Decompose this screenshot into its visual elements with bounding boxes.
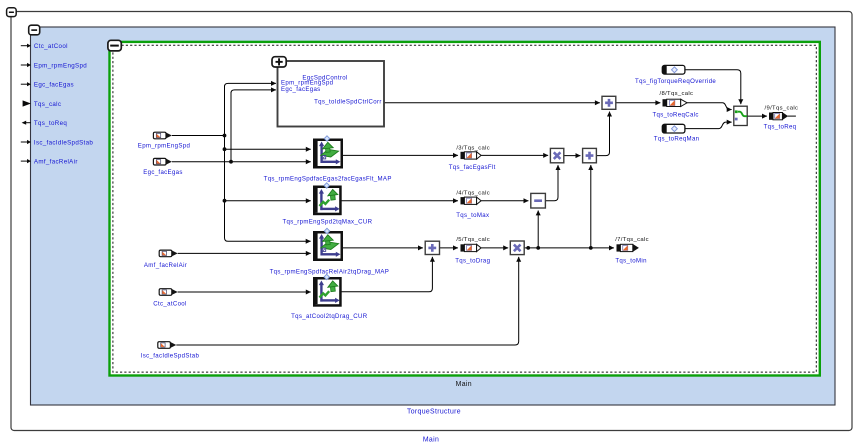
wire branch up to add2 bottom <box>590 165 592 248</box>
collapse button (TorqueStructure) <box>29 25 40 35</box>
svg-text:Tqs_rpmEngSpd2tqMax_CUR: Tqs_rpmEngSpd2tqMax_CUR <box>282 218 372 225</box>
wire add1 out to /8 <box>616 102 661 104</box>
wire CUR2 out to add3 bottom <box>342 257 433 292</box>
wire Ctc_atCool to CUR2 in <box>178 291 311 293</box>
measure point /7/Tqs_calc <box>617 244 639 252</box>
wire add3 to /5 <box>440 247 458 249</box>
collapse button (Main hierarchy) <box>108 40 121 51</box>
wire add2 out to add1 bottom <box>596 112 609 156</box>
input port Isc_facIdleSpdStab <box>21 139 94 146</box>
subsystem block TorqueStructure <box>31 27 836 405</box>
svg-text:Tqs_atCool2tqDrag_CUR: Tqs_atCool2tqDrag_CUR <box>291 313 368 320</box>
svg-text:Ctc_atCool: Ctc_atCool <box>34 43 68 50</box>
svg-text:/7/Tqs_calc: /7/Tqs_calc <box>615 237 649 243</box>
wire Egc_facEgas source to MAP1 in2 <box>172 161 311 163</box>
svg-text:Tqs_toMin: Tqs_toMin <box>615 257 646 264</box>
output port Tqs_toReq <box>22 120 68 127</box>
wire /3 to multiply1 <box>481 154 548 156</box>
operator subtract <box>531 193 546 208</box>
svg-text:TorqueStructure: TorqueStructure <box>407 409 461 416</box>
svg-text:Tqs_toDrag: Tqs_toDrag <box>455 257 490 264</box>
svg-text:Amf_facRelAir: Amf_facRelAir <box>34 158 78 165</box>
wire Epm vertical bus to MAP2 in1 <box>225 86 311 242</box>
svg-text:Egc_facEgas: Egc_facEgas <box>281 86 321 93</box>
wire Egc bus to EgcSpdControl in2 <box>231 90 276 93</box>
wire switch out to /9 <box>747 115 767 117</box>
wire Isc_facIdleSpdStab to multiply2 bottom <box>176 257 518 345</box>
wire Egc vertical bus <box>230 92 232 162</box>
junction multiply2 out <box>526 246 530 250</box>
wire Epm bus to EgcSpdControl in1 <box>225 83 276 86</box>
operator multiply1 <box>550 148 563 162</box>
junction subtract branch <box>536 246 540 250</box>
wire branch up to subtract bottom <box>537 211 539 248</box>
subsystem block EgcSpdControl <box>278 61 385 127</box>
wire bus to CUR1 in <box>225 200 311 202</box>
wire Amf_facRelAir to MAP2 in2 <box>178 252 311 254</box>
wire CUR1 out to /4 <box>342 200 458 202</box>
svg-text:Tqs_toReqCalc: Tqs_toReqCalc <box>652 112 698 119</box>
svg-text:Amf_facRelAir: Amf_facRelAir <box>144 262 187 269</box>
svg-text:Epm_rpmEngSpd: Epm_rpmEngSpd <box>34 62 87 69</box>
MAP block Tqs_rpmEngSpdfacRelAir2tqDrag_MAP <box>314 228 342 259</box>
wire EgcSpdControl out to add1 <box>384 102 600 104</box>
operator add3 <box>425 241 439 254</box>
svg-text:Epm_rpmEngSpd: Epm_rpmEngSpd <box>138 143 190 150</box>
input element Tqs_figTorqueReqOverride <box>662 65 685 74</box>
junction add2 branch <box>589 246 593 250</box>
MAP block Tqs_rpmEngSpdfacEgas2facEgasFlt_MAP <box>314 136 342 167</box>
wire /8 to switch in1 <box>687 103 732 110</box>
svg-text:Tqs_toReqMan: Tqs_toReqMan <box>654 136 700 143</box>
input element Epm_rpmEngSpd <box>153 132 172 139</box>
junction CUR1 branch <box>223 199 227 203</box>
measure point /4/Tqs_calc <box>461 197 482 204</box>
svg-text:/5/Tqs_calc: /5/Tqs_calc <box>456 237 490 243</box>
measure point /5/Tqs_calc <box>461 244 482 251</box>
input element Tqs_toReqMan <box>662 124 685 133</box>
svg-text:Tqs_figTorqueReqOverride: Tqs_figTorqueReqOverride <box>635 78 716 85</box>
svg-text:Tqs_rpmEngSpdfacRelAir2tqDrag_: Tqs_rpmEngSpdfacRelAir2tqDrag_MAP <box>270 269 390 276</box>
svg-text:Tqs_rpmEngSpdfacEgas2facEgasFl: Tqs_rpmEngSpdfacEgas2facEgasFlt_MAP <box>264 175 392 182</box>
svg-text:Tqs_calc: Tqs_calc <box>34 101 61 108</box>
wire /4 to subtract <box>481 200 528 202</box>
svg-text:/9/Tqs_calc: /9/Tqs_calc <box>765 106 799 112</box>
svg-text:Ctc_atCool: Ctc_atCool <box>153 301 186 308</box>
svg-text:/3/Tqs_calc: /3/Tqs_calc <box>456 145 490 151</box>
hierarchy frame Main (green) <box>110 42 820 376</box>
operator multiply2 <box>510 241 524 255</box>
svg-text:Egc_facEgas: Egc_facEgas <box>143 169 183 176</box>
input element Ctc_atCool <box>159 289 178 296</box>
input port Ctc_atCool <box>21 43 68 50</box>
junction MAP1 in1 branch <box>223 147 227 151</box>
measure point /9/Tqs_calc <box>769 112 788 120</box>
operator add1 <box>602 96 616 109</box>
input port Egc_facEgas <box>21 82 74 89</box>
CUR block Tqs_rpmEngSpd2tqMax_CUR <box>314 183 340 214</box>
svg-text:/4/Tqs_calc: /4/Tqs_calc <box>456 191 490 197</box>
wire /5 to multiply2 <box>481 247 508 249</box>
input port Amf_facRelAir <box>21 158 78 165</box>
junction Epm source <box>223 134 227 138</box>
svg-text:Main: Main <box>456 381 472 388</box>
svg-text:/8/Tqs_calc: /8/Tqs_calc <box>660 91 694 97</box>
input element Egc_facEgas <box>153 158 172 165</box>
svg-text:Tqs_toIdleSpdCtrlCorr: Tqs_toIdleSpdCtrlCorr <box>314 99 382 106</box>
wire multiply1 out to add2 <box>564 155 581 157</box>
junction Egc source <box>229 160 233 164</box>
svg-text:Egc_facEgas: Egc_facEgas <box>34 82 74 89</box>
wire Epm_rpmEngSpd source to bus <box>172 135 225 137</box>
measure point /3/Tqs_calc <box>461 152 482 159</box>
operator add2 <box>583 148 597 162</box>
collapse button (outer frame) <box>7 8 17 17</box>
svg-text:Isc_facIdleSpdStab: Isc_facIdleSpdStab <box>141 353 200 360</box>
svg-text:Tqs_toMax: Tqs_toMax <box>456 212 489 219</box>
switch block <box>734 106 747 125</box>
CUR block Tqs_atCool2tqDrag_CUR <box>314 274 340 305</box>
wire /9 out <box>788 115 796 117</box>
wire subtract out to multiply1 bottom <box>545 165 558 201</box>
expand button (EgcSpdControl) <box>272 57 286 67</box>
input port Epm_rpmEngSpd <box>21 62 87 69</box>
svg-text:Tqs_toReq: Tqs_toReq <box>34 120 67 127</box>
svg-text:Tqs_toReq: Tqs_toReq <box>764 124 797 131</box>
wire bus to MAP1 in1 <box>225 148 311 150</box>
wire Tqs_toReqMan to switch in2 <box>685 122 732 129</box>
wire multiply2 out to /7 <box>524 247 614 249</box>
wire Tqs_figTorqueReqOverride to switch top <box>685 70 741 104</box>
svg-text:Isc_facIdleSpdStab: Isc_facIdleSpdStab <box>34 139 93 146</box>
input element Amf_facRelAir <box>159 250 178 257</box>
measure point /8/Tqs_calc <box>663 99 688 106</box>
wire MAP2 out to add3 <box>343 247 423 249</box>
svg-text:Tqs_facEgasFlt: Tqs_facEgasFlt <box>449 164 496 171</box>
wire MAP1 out to /3 <box>343 154 458 156</box>
inout port Tqs_calc <box>23 100 62 107</box>
input element Isc_facIdleSpdStab <box>158 342 177 349</box>
svg-text:Main: Main <box>423 437 439 444</box>
